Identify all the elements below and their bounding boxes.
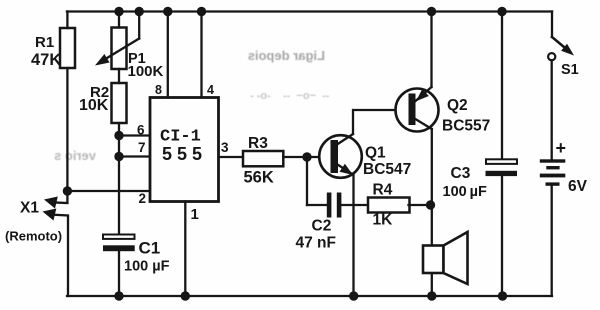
resistor R1 xyxy=(60,28,75,68)
capacitor C3 top plate xyxy=(486,159,517,164)
resistor R4 xyxy=(368,198,410,213)
transistor Q2 BC557 xyxy=(396,89,439,132)
svg-text:(Remoto): (Remoto) xyxy=(5,229,62,244)
node top rail / P1 xyxy=(114,7,123,16)
battery B1 plate long1 xyxy=(540,159,566,162)
wire P1 wiper diagonal xyxy=(102,39,139,62)
svg-text:Ligar depois: Ligar depois xyxy=(248,48,325,63)
speaker horn xyxy=(444,232,468,284)
svg-text:47 nF: 47 nF xyxy=(296,235,336,252)
wire C2 drop xyxy=(306,157,308,205)
switch S1 blade xyxy=(552,37,567,50)
node pin6 junction xyxy=(114,131,123,140)
wire Q1 emitter down xyxy=(352,175,354,297)
svg-text:7: 7 xyxy=(138,140,146,155)
transistor Q1 BC547 xyxy=(319,135,362,178)
resistor R3 xyxy=(243,151,283,166)
node top rail / P1 wiper xyxy=(135,7,144,16)
svg-text:Q2: Q2 xyxy=(447,97,468,114)
svg-text:100K: 100K xyxy=(128,63,164,80)
svg-text:S1: S1 xyxy=(561,62,579,78)
wire X1 upper lead xyxy=(55,191,67,203)
node speaker / ground rail xyxy=(427,291,436,300)
node C3 / ground rail xyxy=(498,291,507,300)
wire battery bottom xyxy=(551,186,553,296)
svg-text:8: 8 xyxy=(155,83,162,97)
wire C2 left lead xyxy=(307,204,327,206)
wire P1 wiper drop xyxy=(138,12,140,39)
svg-text:BC557: BC557 xyxy=(442,118,490,135)
svg-text:3: 3 xyxy=(221,140,229,155)
node pin7 junction xyxy=(114,152,123,161)
node top rail / pin4 xyxy=(197,7,206,16)
wire pin2 horizontal xyxy=(67,190,150,192)
svg-text:- -o- -- −o− --: - -o- -- −o− -- xyxy=(250,90,330,102)
wire pin7 horizontal xyxy=(119,155,150,157)
wire switch top xyxy=(551,12,553,38)
switch S1 arrowhead xyxy=(561,44,574,56)
svg-text:C1: C1 xyxy=(139,239,161,258)
wire R3 to Q1 base xyxy=(283,156,330,158)
op-amp U1 555 timer box CI-1 xyxy=(150,98,219,202)
transistor Q1 base bar xyxy=(331,140,339,173)
svg-text:100 µF: 100 µF xyxy=(124,259,170,275)
wire Q2 collector diagonal xyxy=(415,119,432,130)
svg-text:56K: 56K xyxy=(244,169,274,187)
wire pin3 horizontal xyxy=(219,156,244,158)
wire Q2 collector down to speaker xyxy=(431,129,433,296)
capacitor C3 bottom plate xyxy=(486,171,518,176)
potentiometer P1 body xyxy=(112,28,127,70)
wire R2 bottom down to C1 xyxy=(118,123,120,235)
wire P1 to R2 xyxy=(118,69,120,83)
node pin1 / ground rail xyxy=(181,291,190,300)
svg-text:4: 4 xyxy=(207,83,214,97)
wire Q1 collector diagonal xyxy=(337,134,353,145)
wire C3 bottom xyxy=(501,176,503,296)
node C1 / ground rail xyxy=(114,291,123,300)
svg-text:X1: X1 xyxy=(20,200,39,217)
battery B1 plate long2 xyxy=(540,174,566,178)
capacitor C3 top wire xyxy=(501,12,503,160)
wire Q1 emitter arrowhead xyxy=(340,164,354,175)
svg-text:10K: 10K xyxy=(79,97,109,114)
svg-text:6V: 6V xyxy=(568,178,588,195)
capacitor C1 top plate xyxy=(103,235,135,239)
wire Q1 collector up to Q2 base xyxy=(353,110,409,134)
wire R1 top xyxy=(66,12,68,29)
svg-text:555: 555 xyxy=(162,144,207,164)
node Q1 emitter / ground rail xyxy=(349,291,358,300)
wire Q2 emitter diagonal xyxy=(416,87,432,101)
svg-text:Q1: Q1 xyxy=(365,145,386,162)
resistor R2 xyxy=(112,83,127,123)
capacitor C2 left plate xyxy=(327,193,332,218)
node top rail / pin8 xyxy=(163,7,172,16)
battery B1 plate short1 xyxy=(546,166,559,169)
wire Q2 emitter arrowhead xyxy=(416,89,429,101)
switch S1 terminal circle xyxy=(548,53,555,60)
svg-text:6: 6 xyxy=(137,123,145,138)
node junction R1/X1/pin2 xyxy=(63,186,72,195)
battery B1 plate short2 xyxy=(546,182,560,185)
wire pin4 vertical xyxy=(200,12,202,98)
svg-text:R1: R1 xyxy=(35,34,54,51)
svg-text:C3: C3 xyxy=(451,165,471,182)
wire X1 upper arrowhead xyxy=(44,197,58,209)
svg-text:47K: 47K xyxy=(31,51,61,69)
transistor Q2 base bar xyxy=(409,94,416,126)
svg-text:C2: C2 xyxy=(312,218,332,235)
svg-text:R3: R3 xyxy=(248,135,268,152)
wire pin8 vertical xyxy=(167,12,169,98)
wire bottom ground rail xyxy=(67,295,552,297)
svg-text:1K: 1K xyxy=(373,212,394,229)
wire P1 top xyxy=(118,12,120,28)
speaker body xyxy=(423,246,444,274)
svg-text:100 µF: 100 µF xyxy=(443,184,487,200)
svg-text:verio s: verio s xyxy=(54,148,96,163)
svg-text:BC547: BC547 xyxy=(363,161,411,178)
wire C2 to R4 xyxy=(341,204,368,206)
wire R1 bottom xyxy=(66,68,68,191)
wire battery top xyxy=(551,60,553,159)
svg-text:2: 2 xyxy=(139,191,147,206)
svg-text:+: + xyxy=(556,138,567,158)
node R3 / C2 junction xyxy=(302,152,311,161)
wire X1 lower arrowhead xyxy=(43,209,57,221)
wire pin1 vertical xyxy=(184,202,186,297)
wire R4 right lead xyxy=(409,204,432,206)
wire Q1 emitter diagonal xyxy=(338,165,353,175)
wire X1 lower lead xyxy=(55,215,68,296)
node R4 / Q2 collector xyxy=(426,200,435,209)
wire C1 bottom xyxy=(118,251,120,296)
capacitor C2 right plate xyxy=(337,193,342,218)
wire P1 wiper arrowhead xyxy=(95,54,110,66)
node top rail / C3 xyxy=(497,7,506,16)
wire Q2 emitter up to rail xyxy=(430,12,432,88)
capacitor C1 bottom plate xyxy=(103,245,135,251)
svg-text:R4: R4 xyxy=(373,182,393,199)
svg-text:1: 1 xyxy=(191,206,199,223)
wire pin6 horizontal xyxy=(119,134,150,136)
node top rail / Q2 emitter xyxy=(427,7,436,16)
wire top supply rail xyxy=(67,10,552,12)
